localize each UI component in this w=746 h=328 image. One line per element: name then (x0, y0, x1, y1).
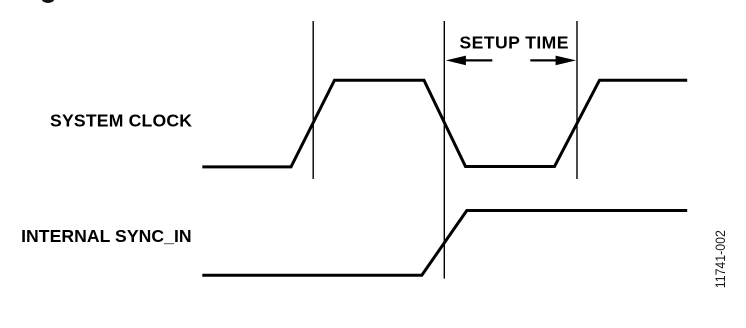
svg-text:11741-002: 11741-002 (713, 230, 728, 288)
svg-text:SYSTEM CLOCK: SYSTEM CLOCK (50, 111, 192, 131)
system clock waveform (202, 80, 687, 167)
setup time left arrow (446, 56, 493, 66)
marker line: setup interval end (clock rising edge) (576, 21, 578, 179)
svg-text:SETUP TIME: SETUP TIME (460, 33, 569, 53)
svg-text:INTERNAL SYNC_IN: INTERNAL SYNC_IN (21, 226, 192, 246)
cropped caption fragment (42, 0, 55, 3)
internal sync_in waveform (202, 211, 687, 276)
marker line: setup interval start (clock falling edge) (443, 21, 445, 279)
marker line: first clock rising edge (312, 21, 314, 179)
setup time right arrow (530, 56, 576, 66)
